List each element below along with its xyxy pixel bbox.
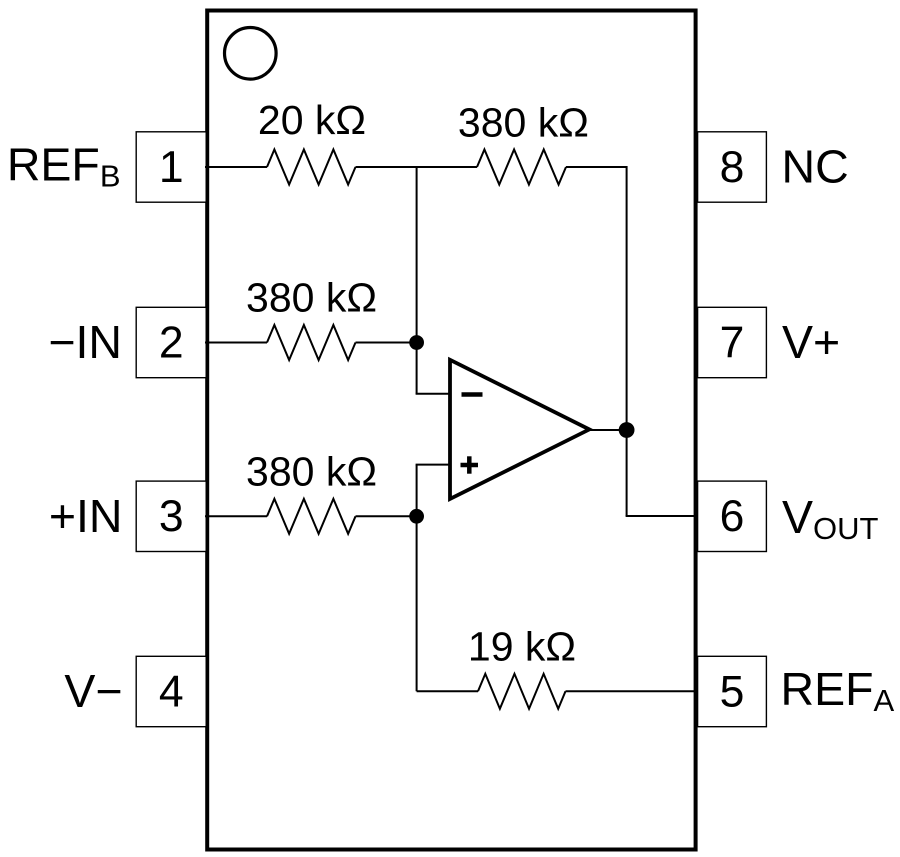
svg-text:VOUT: VOUT bbox=[782, 491, 879, 546]
pin 8 box bbox=[698, 132, 767, 202]
wire output to pin 6 bbox=[626, 515, 696, 517]
svg-text:+IN: +IN bbox=[49, 490, 123, 542]
pin 3 box bbox=[136, 481, 206, 551]
svg-text:REFA: REFA bbox=[781, 663, 895, 718]
svg-text:7: 7 bbox=[720, 318, 745, 367]
wire R1 to R2 through node J1 bbox=[356, 166, 478, 168]
resistor R1 20k zigzag bbox=[267, 150, 356, 185]
resistor R2 380k zigzag (top feedback) bbox=[477, 150, 566, 185]
op-amp plus sign bbox=[461, 456, 479, 473]
wire noninverting input stub bbox=[416, 464, 451, 466]
svg-text:20 kΩ: 20 kΩ bbox=[258, 97, 366, 143]
wire feedback vertical bbox=[626, 166, 628, 516]
resistor R3 380k zigzag bbox=[267, 325, 356, 360]
wire noninverting node to R5 bbox=[417, 690, 478, 692]
svg-text:8: 8 bbox=[720, 143, 745, 192]
wire op-amp output bbox=[588, 429, 627, 431]
pin 1 box bbox=[136, 132, 206, 202]
svg-text:3: 3 bbox=[159, 492, 184, 541]
pin 5 box bbox=[698, 656, 767, 726]
svg-text:−IN: −IN bbox=[48, 316, 122, 368]
junction dot output node bbox=[619, 422, 635, 438]
IC body U1 bbox=[207, 11, 695, 850]
svg-text:REFB: REFB bbox=[7, 139, 121, 194]
wire R5 to pin 5 bbox=[566, 690, 696, 692]
resistor R4 380k zigzag bbox=[267, 499, 356, 534]
wire node J1 down to inverting input bbox=[416, 166, 418, 394]
svg-text:5: 5 bbox=[720, 667, 745, 716]
svg-text:1: 1 bbox=[159, 143, 184, 192]
wire R4 to noninverting node bbox=[356, 515, 417, 517]
svg-text:6: 6 bbox=[720, 492, 745, 541]
wire R3 to inverting node bbox=[356, 342, 417, 344]
svg-text:V−: V− bbox=[64, 665, 122, 717]
pin 7 box bbox=[698, 307, 767, 377]
svg-text:V+: V+ bbox=[782, 316, 840, 368]
pin 2 box bbox=[136, 307, 206, 377]
pin 6 box bbox=[698, 481, 767, 551]
pin 4 box bbox=[136, 656, 206, 726]
junction dot noninverting node bbox=[409, 509, 424, 524]
wire inverting input stub bbox=[416, 393, 451, 395]
wire pin1 to R1 bbox=[205, 166, 267, 168]
op-amp minus sign bbox=[462, 392, 483, 397]
wire pin3 to R4 bbox=[205, 515, 267, 517]
op-amp U1 triangle bbox=[450, 360, 589, 499]
svg-text:19 kΩ: 19 kΩ bbox=[468, 623, 576, 669]
svg-text:NC: NC bbox=[782, 141, 849, 193]
svg-text:4: 4 bbox=[159, 667, 184, 716]
svg-text:380 kΩ: 380 kΩ bbox=[458, 100, 589, 146]
junction dot inverting node bbox=[409, 335, 424, 350]
wire R2 to feedback vertical bbox=[566, 166, 627, 168]
svg-text:380 kΩ: 380 kΩ bbox=[246, 448, 377, 494]
wire pin2 to R3 bbox=[205, 342, 267, 344]
svg-text:2: 2 bbox=[159, 318, 184, 367]
pin-1 indicator circle bbox=[225, 28, 277, 80]
svg-text:380 kΩ: 380 kΩ bbox=[246, 275, 377, 321]
resistor R5 19k zigzag bbox=[478, 674, 565, 709]
wire noninverting vertical bbox=[416, 465, 418, 692]
